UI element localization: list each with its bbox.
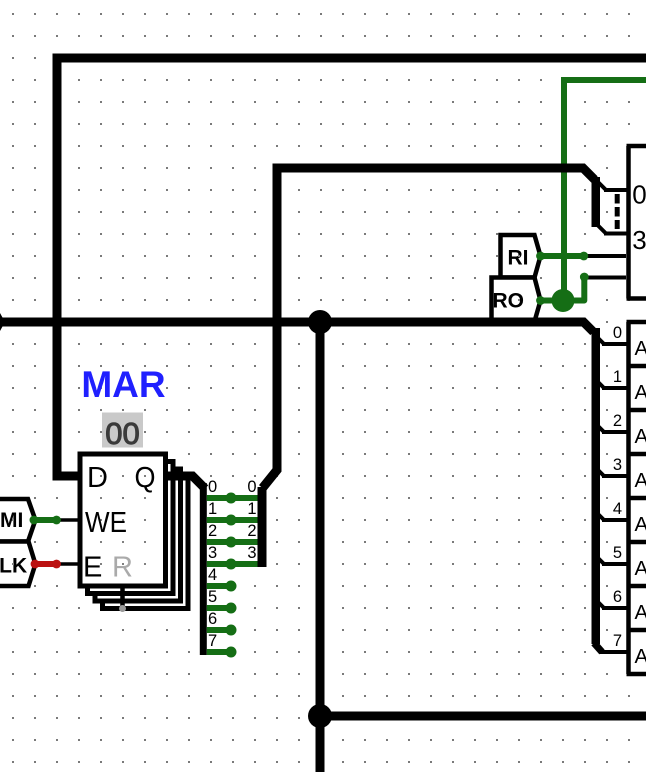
svg-text:6: 6 — [208, 610, 217, 628]
pin stub E — [57, 562, 81, 566]
pin stub RI to port — [584, 254, 629, 258]
off-screen tunnel tip at left edge — [0, 313, 5, 331]
svg-text:7: 7 — [208, 632, 217, 650]
svg-text:7: 7 — [613, 632, 622, 650]
wire RI green — [536, 252, 584, 261]
svg-text:3: 3 — [208, 544, 217, 562]
svg-text:0: 0 — [247, 478, 256, 496]
svg-text:0: 0 — [208, 478, 217, 496]
junction dot main bus — [308, 310, 332, 334]
svg-text:1: 1 — [613, 368, 622, 386]
junction dot bottom bus — [308, 704, 332, 728]
splitter S1 pin numbers — [208, 478, 217, 650]
register R pin stub — [120, 584, 125, 607]
wire MI green — [30, 516, 57, 525]
svg-text:4: 4 — [613, 500, 622, 518]
svg-text:RI: RI — [508, 247, 529, 270]
svg-text:0: 0 — [632, 180, 646, 210]
svg-text:A: A — [635, 381, 646, 404]
junction dot RO net — [552, 289, 575, 312]
main bus wire (left edge to A splitter) — [0, 322, 594, 332]
splitter S3 pin 3 — [597, 225, 606, 234]
splitter S3 pin 0 — [597, 181, 606, 190]
svg-text:A: A — [635, 557, 646, 580]
svg-text:A: A — [635, 513, 646, 536]
svg-text:WE: WE — [85, 507, 127, 539]
splitter S4 (A fanout) bar — [592, 328, 601, 644]
tunnel MI — [0, 499, 35, 542]
svg-text:E: E — [83, 552, 102, 584]
svg-text:1: 1 — [208, 500, 217, 518]
tunnel RI — [501, 235, 541, 278]
splitter S4 bottom diag — [594, 643, 602, 652]
svg-text:2: 2 — [613, 412, 622, 430]
pin stub RO to port — [584, 276, 628, 280]
port block A cells fill — [626, 320, 646, 677]
port block upper (RAM) fill — [626, 144, 646, 301]
svg-text:A: A — [635, 469, 646, 492]
svg-text:A: A — [635, 337, 646, 360]
wire CLK red — [31, 560, 57, 569]
svg-text:R: R — [112, 552, 133, 584]
wire end dot RI — [579, 252, 588, 261]
bus wire bottom — [320, 712, 646, 721]
wire RO green + net vertical — [536, 80, 646, 305]
svg-text:A: A — [635, 601, 646, 624]
svg-text:3: 3 — [247, 544, 256, 562]
svg-text:MI: MI — [0, 509, 23, 532]
svg-text:2: 2 — [247, 522, 256, 540]
splitter S3 dashed range line — [615, 194, 620, 229]
bus wire top — [57, 58, 646, 476]
svg-text:CLK: CLK — [0, 555, 27, 578]
bus wire second — [263, 168, 595, 488]
port block A cell borders — [627, 322, 646, 674]
svg-text:4: 4 — [208, 566, 217, 584]
svg-text:A: A — [635, 425, 646, 448]
svg-text:5: 5 — [208, 588, 217, 606]
pin stub WE — [57, 518, 81, 522]
svg-text:D: D — [87, 462, 108, 494]
splitter S4 pin numbers — [613, 324, 622, 650]
svg-text:5: 5 — [613, 544, 622, 562]
wire end dot RO — [580, 273, 589, 282]
tunnel RO — [492, 278, 541, 322]
port block upper bottom edge — [627, 296, 646, 301]
svg-text:1: 1 — [247, 500, 256, 518]
splitter S1 pins 0-7 — [207, 493, 258, 657]
svg-text:MAR: MAR — [81, 364, 165, 405]
svg-text:Q: Q — [135, 462, 156, 494]
wire end dot CLK — [52, 560, 61, 569]
port block A left edge — [626, 322, 631, 674]
register MAR stacked cards (4-bit) — [80, 454, 188, 609]
wire end dot MI — [52, 516, 61, 525]
register unconnected R pin dot — [119, 605, 126, 612]
port block upper left edge — [626, 146, 631, 299]
svg-text:3: 3 — [632, 225, 646, 255]
splitter S1 left bar (Q fanout) — [200, 483, 207, 655]
port block upper top edge — [627, 144, 646, 149]
splitter S3 upper (4-bit to RAM) bar — [592, 177, 601, 227]
svg-text:2: 2 — [208, 522, 217, 540]
bus wire Q output — [166, 476, 206, 489]
svg-text:3: 3 — [613, 456, 622, 474]
grid dots over component fills — [12, 255, 520, 565]
svg-text:00: 00 — [105, 416, 139, 451]
splitter S2 right bar (to bus) — [258, 487, 267, 567]
tunnel CLK — [0, 542, 35, 587]
svg-text:A: A — [635, 645, 646, 668]
value box 00 — [102, 413, 143, 448]
splitter S4 pins — [596, 336, 629, 652]
svg-text:0: 0 — [613, 324, 622, 342]
splitter S2 pin numbers — [247, 478, 256, 562]
port block A labels — [635, 337, 646, 668]
svg-text:6: 6 — [613, 588, 622, 606]
bus wire down from junction — [316, 322, 325, 772]
